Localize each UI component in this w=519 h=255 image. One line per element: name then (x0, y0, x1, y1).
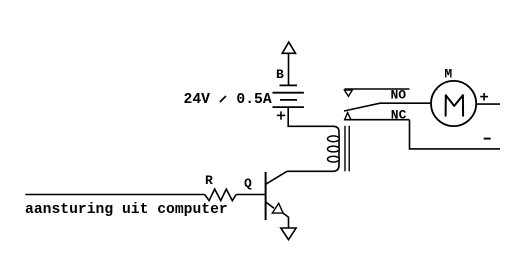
relay armature wire to motor (344, 103, 431, 111)
svg-text:R: R (205, 173, 213, 188)
wire NC contact down and right to minus terminal (410, 120, 501, 149)
wire motor to plus terminal (476, 103, 500, 105)
svg-text:Q: Q (244, 176, 252, 191)
relay NC contact triangle (345, 113, 351, 120)
svg-text:M: M (444, 67, 452, 82)
motor M glyph (446, 95, 464, 116)
transistor Q emitter arrow (272, 203, 283, 213)
relay NC contact line (345, 119, 410, 121)
wire battery bottom to coil top (288, 107, 333, 126)
plus terminal sign (480, 93, 488, 101)
svg-text:B: B (276, 67, 284, 82)
resistor R (205, 189, 237, 201)
wire coil bottom to transistor collector (287, 170, 333, 172)
relay NO contact triangle (344, 90, 352, 96)
svg-text:24V: 24V (184, 92, 211, 108)
relay coil loop 1 (328, 136, 340, 142)
wire power arrow to battery top (288, 53, 290, 85)
wire resistor to transistor base (236, 194, 265, 196)
relay core line 1 (344, 126, 346, 172)
transistor Q emitter lead upper (266, 202, 274, 208)
relay core line 2 (348, 126, 350, 172)
power arrow (supply symbol above battery) (282, 42, 295, 53)
battery plus sign (277, 111, 285, 119)
relay NO contact line (345, 88, 410, 90)
transistor Q emitter lead lower (283, 213, 288, 228)
svg-text:0.5A: 0.5A (236, 92, 271, 108)
relay coil loop 2 (328, 146, 340, 152)
relay coil loop 3 (328, 156, 340, 162)
minus terminal label (484, 138, 491, 140)
transistor Q collector lead (266, 171, 287, 184)
svg-text:NO: NO (391, 87, 407, 102)
transistor Q base bar (265, 172, 267, 220)
ground symbol (281, 228, 296, 240)
svg-text:NC: NC (391, 107, 407, 122)
motor M1 circle (431, 81, 476, 126)
wire computer input to resistor (25, 194, 204, 196)
battery B plates (273, 85, 304, 107)
relay coil K1 body (333, 126, 339, 171)
svg-text:aansturing uit computer: aansturing uit computer (25, 202, 228, 218)
